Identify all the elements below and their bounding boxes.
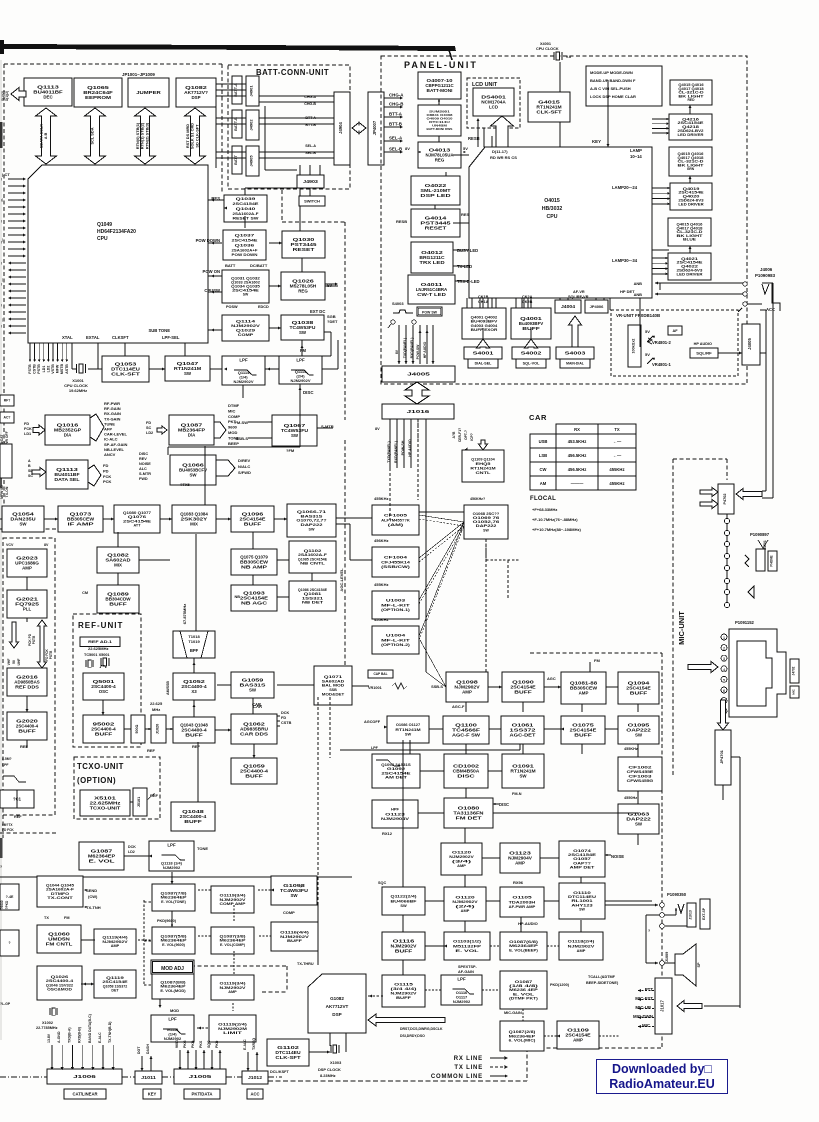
svg-text:MSTB: MSTB (60, 364, 64, 375)
svg-text:AGC: AGC (547, 676, 556, 681)
svg-text:SD CLK-SFT: SD CLK-SFT (194, 124, 199, 148)
svg-text:MIC-GAIN: MIC-GAIN (504, 1011, 522, 1015)
svg-text:RESB: RESB (468, 136, 480, 141)
svg-text:CLK-SFT: CLK-SFT (111, 372, 140, 377)
svg-text:9600: 9600 (228, 425, 238, 430)
svg-text:—: — (0, 198, 4, 202)
svg-text:PD: PD (103, 468, 109, 473)
svg-text:TCXO-UNIT: TCXO-UNIT (77, 762, 124, 771)
svg-text:J4903: J4903 (303, 179, 319, 184)
svg-text:NJM2902: NJM2902 (163, 865, 181, 870)
svg-text:BUFF: BUFF (245, 774, 263, 779)
svg-text:AF-PWR AMP: AF-PWR AMP (509, 904, 536, 909)
svg-text:455KHz: 455KHz (374, 617, 388, 622)
svg-text:SSB-S: SSB-S (236, 436, 249, 441)
svg-text:S/FWD: S/FWD (238, 470, 251, 475)
svg-text:J4006: J4006 (760, 267, 773, 272)
svg-text:(SSB/CW): (SSB/CW) (381, 564, 411, 569)
svg-text:J4005: J4005 (407, 372, 430, 377)
svg-text:RTN(2) STB(3): RTN(2) STB(3) (144, 122, 149, 149)
svg-text:453.5KHz: 453.5KHz (568, 439, 587, 444)
svg-text:SW: SW (184, 371, 192, 376)
svg-text:POW DOWN: POW DOWN (232, 252, 258, 257)
svg-text:VCV: VCV (6, 543, 14, 547)
svg-text:?L-GP: ?L-GP (0, 1002, 11, 1006)
svg-text:VR4801-1: VR4801-1 (652, 362, 672, 367)
svg-text:ANCV: ANCV (104, 452, 116, 457)
svg-text:E. VOL(9600): E. VOL(9600) (162, 943, 186, 947)
svg-text:AF: AF (672, 329, 678, 333)
svg-text:FM-N: FM-N (512, 792, 522, 796)
svg-text:REF-UNIT: REF-UNIT (78, 621, 123, 630)
svg-text:DCK: DCK (128, 845, 136, 849)
svg-text:+F+10.7MHz(88~-108MHz): +F+10.7MHz(88~-108MHz) (532, 527, 581, 532)
svg-text:NJM2902V: NJM2902V (391, 991, 418, 995)
svg-text:J1013: J1013 (689, 910, 693, 920)
svg-text:PKS: PKS (199, 1040, 203, 1048)
svg-text:FD: FD (281, 716, 286, 720)
svg-text:J4902: J4902 (249, 119, 254, 131)
svg-text:10~14: 10~14 (630, 154, 642, 159)
svg-text:455KHz: 455KHz (624, 747, 638, 751)
svg-text:NB AGC: NB AGC (241, 601, 268, 606)
svg-text:?: ? (300, 885, 302, 889)
svg-text:O1119(2/4): O1119(2/4) (218, 1022, 248, 1026)
svg-text:EXTAL: EXTAL (86, 335, 100, 340)
svg-text:REG: REG (298, 289, 308, 294)
svg-text:LPF: LPF (296, 358, 305, 363)
svg-text:50: 50 (12, 660, 16, 664)
svg-text:IF AMP: IF AMP (68, 522, 94, 527)
svg-text:RX96: RX96 (513, 880, 524, 885)
svg-text:RED: RED (688, 98, 696, 102)
svg-text:(: ( (1, 282, 2, 286)
svg-text:CLK-SFT: CLK-SFT (536, 110, 562, 115)
svg-text:X1003: X1003 (330, 1060, 342, 1065)
svg-text:KEY: KEY (592, 139, 601, 144)
svg-text:PKG: PKG (183, 1040, 187, 1048)
svg-text:SSB-S: SSB-S (431, 684, 443, 689)
svg-text:LOCK DSP HOME CLAR: LOCK DSP HOME CLAR (590, 94, 636, 99)
svg-text:BUFF: BUFF (244, 522, 262, 527)
svg-text:CFWS455G: CFWS455G (627, 778, 654, 783)
svg-text:REF: REF (147, 748, 156, 753)
svg-text:22.7785MHz: 22.7785MHz (36, 1026, 58, 1030)
svg-text:5V: 5V (645, 352, 650, 357)
svg-text:CSTB: CSTB (281, 721, 292, 725)
svg-text:LPF: LPF (167, 843, 176, 848)
svg-text:FM: FM (64, 916, 69, 920)
svg-text:RXD(B-B): RXD(B-B) (78, 1027, 82, 1043)
svg-text:VR1001: VR1001 (368, 686, 382, 690)
svg-text:(: ( (1, 303, 2, 307)
svg-text:JP4701: JP4701 (719, 749, 724, 764)
svg-text:J1009: J1009 (665, 952, 669, 963)
svg-text:J1005: J1005 (189, 1074, 212, 1079)
svg-text:CAR: CAR (253, 704, 262, 709)
svg-text:AM DET: AM DET (385, 776, 408, 780)
svg-text:E. VOL: E. VOL (89, 859, 116, 864)
svg-text:D(11-17): D(11-17) (492, 149, 508, 154)
svg-text:LD1: LD1 (42, 366, 46, 373)
svg-text:BAND DATA(B-C): BAND DATA(B-C) (88, 1014, 92, 1043)
svg-text:CSTB: CSTB (33, 364, 37, 374)
svg-text:M62364EP: M62364EP (509, 1034, 536, 1038)
svg-text:(OPTION-1): (OPTION-1) (381, 607, 411, 612)
svg-text:SW: SW (243, 293, 249, 297)
svg-text:(CW): (CW) (88, 894, 98, 899)
svg-text:FCK: FCK (24, 427, 32, 431)
svg-text:EDCD: EDCD (258, 305, 269, 309)
svg-text:AMP: AMP (22, 566, 32, 571)
svg-text:FM: FM (300, 348, 307, 353)
svg-text:Q1109 Q1104: Q1109 Q1104 (471, 458, 495, 462)
svg-text:AF-VR: AF-VR (573, 290, 585, 294)
svg-text:BUFF: BUFF (185, 733, 203, 738)
svg-text:BTT-A: BTT-A (389, 112, 403, 117)
svg-text:AMP: AMP (228, 990, 237, 994)
svg-text:1: 1 (723, 636, 725, 640)
svg-text:RX12: RX12 (382, 831, 393, 836)
svg-text:|-CT: |-CT (2, 172, 10, 177)
svg-text:P1090983: P1090983 (755, 273, 776, 278)
svg-text:5: 5 (723, 678, 725, 682)
svg-text:TX-LED: TX-LED (457, 264, 472, 269)
svg-text:LAMP: LAMP (630, 148, 642, 153)
svg-text:LED DRIVER: LED DRIVER (678, 202, 704, 206)
svg-text:500Ω: 500Ω (135, 724, 139, 733)
svg-text:PHONE: PHONE (770, 555, 774, 566)
svg-text:REF DDS: REF DDS (15, 685, 39, 690)
svg-text:9600: 9600 (175, 1040, 179, 1048)
svg-text:O1119(3/4): O1119(3/4) (220, 893, 247, 897)
svg-text:BUFF: BUFF (630, 691, 648, 696)
svg-text:AGC-F: AGC-F (452, 704, 465, 709)
svg-text:AMP: AMP (461, 908, 470, 913)
svg-text:DSP CLOCK: DSP CLOCK (318, 1067, 341, 1072)
svg-text:(: ( (1, 219, 2, 223)
svg-text:POW DOWN: POW DOWN (196, 238, 220, 243)
svg-text:LCD UNIT: LCD UNIT (472, 82, 498, 88)
svg-text:DSI,DRDY,DSO: DSI,DRDY,DSO (400, 1034, 425, 1038)
svg-text:P4702: P4702 (723, 494, 727, 505)
svg-text:BLUE: BLUE (683, 238, 697, 242)
svg-text:LED DRIVER: LED DRIVER (677, 272, 704, 276)
svg-text:+F+68.33MHz: +F+68.33MHz (532, 507, 557, 512)
svg-text:FM-SW: FM-SW (234, 420, 248, 425)
svg-text:PKD(1200): PKD(1200) (550, 983, 570, 987)
svg-text:X1002: X1002 (42, 1021, 53, 1025)
svg-text:BTT-B: BTT-B (389, 122, 402, 127)
svg-text:O1119(3/4): O1119(3/4) (220, 981, 247, 985)
svg-text:RESB: RESB (396, 219, 407, 224)
svg-text:OSC: OSC (99, 689, 109, 694)
svg-text:FCK: FCK (103, 474, 111, 479)
svg-text:NJM2902V: NJM2902V (233, 379, 253, 384)
svg-text:M62364EP: M62364EP (161, 896, 188, 900)
svg-text:CPU: CPU (547, 214, 558, 220)
svg-text:N/ALC: N/ALC (238, 464, 250, 469)
svg-text:AMP: AMP (573, 1038, 583, 1043)
svg-text:455KHz: 455KHz (374, 496, 388, 501)
svg-text:BATT-CONN-UNIT: BATT-CONN-UNIT (256, 68, 329, 77)
svg-text:HP AUDIO: HP AUDIO (423, 341, 427, 358)
svg-text:SP: SP (697, 962, 701, 968)
svg-text:NJM2902V: NJM2902V (290, 378, 310, 383)
svg-text:POW ON: POW ON (203, 269, 220, 274)
svg-text:AGC-F SW: AGC-F SW (452, 733, 481, 738)
svg-text:CLKSFT: CLKSFT (112, 335, 129, 340)
svg-text:SW: SW (290, 893, 298, 898)
svg-text:COMP: COMP (238, 332, 254, 337)
svg-text:RESET: RESET (293, 247, 315, 252)
svg-text:BATT: BATT (234, 154, 238, 165)
svg-text:AMP: AMP (577, 948, 586, 953)
svg-text:TX: TX (614, 427, 620, 432)
svg-text:RESET SW: RESET SW (233, 216, 259, 221)
svg-text:?TX5: ?TX5 (180, 482, 191, 487)
svg-text:BUFF: BUFF (396, 996, 412, 1000)
svg-text:POSW: POSW (226, 305, 238, 309)
svg-text:456.5KHz: 456.5KHz (568, 453, 587, 458)
svg-text:JP4007: JP4007 (372, 120, 377, 135)
svg-text:Q1087(2/8): Q1087(2/8) (509, 1030, 537, 1034)
svg-text:DISC: DISC (457, 774, 476, 779)
svg-text:BUFF: BUFF (514, 690, 532, 695)
svg-text:NOISE: NOISE (611, 854, 624, 859)
svg-text:J4701: J4701 (763, 540, 767, 550)
svg-text:X4001: X4001 (540, 42, 551, 46)
svg-text:KEY: KEY (148, 1091, 157, 1096)
svg-text:SW: SW (635, 822, 643, 827)
svg-text:100kΩx2: 100kΩx2 (632, 339, 636, 354)
svg-text:X3: X3 (191, 689, 197, 694)
svg-text:J4702: J4702 (792, 666, 796, 675)
svg-text:BUFF: BUFF (109, 602, 127, 607)
svg-text:TX-TNH: TX-TNH (86, 905, 101, 910)
svg-text:BUFF: BUFF (395, 949, 413, 954)
svg-text:(: ( (1, 261, 2, 265)
svg-text:BUFF: BUFF (18, 729, 36, 734)
svg-text:JUMPER: JUMPER (136, 90, 162, 95)
svg-text:ALC: ALC (139, 467, 147, 471)
svg-text:DEC: DEC (43, 95, 53, 100)
svg-text:SQC: SQC (378, 881, 386, 885)
svg-text:ASTB: ASTB (65, 364, 69, 374)
svg-text:RXD(PANEL): RXD(PANEL) (410, 338, 414, 359)
svg-text:TXREQ: TXREQ (252, 1038, 256, 1050)
svg-text:MIX: MIX (190, 522, 198, 527)
svg-text:CAT/LINEAR: CAT/LINEAR (72, 1091, 97, 1096)
svg-text:DSP LED: DSP LED (420, 193, 450, 198)
svg-text:MIX: MIX (114, 563, 122, 568)
svg-text:NJM2902V: NJM2902V (220, 986, 247, 990)
svg-text:AMP: AMP (515, 861, 525, 866)
svg-text:?: ? (0, 865, 2, 869)
svg-text:Downloaded by□: Downloaded by□ (612, 1062, 712, 1076)
svg-text:SW: SW (249, 688, 257, 693)
svg-text:J5101: J5101 (137, 797, 141, 808)
svg-text:?PKD: ?PKD (5, 900, 9, 909)
svg-text:SW: SW (299, 330, 307, 335)
svg-text:SW: SW (400, 903, 407, 908)
svg-text:PTT: PTT (645, 987, 654, 992)
svg-text:SQC: SQC (207, 1040, 211, 1048)
svg-text:SQL/RF: SQL/RF (696, 351, 712, 355)
svg-text:—: — (0, 238, 4, 242)
svg-text:456.5KHz: 456.5KHz (568, 467, 587, 472)
svg-text:RX LINE: RX LINE (454, 1056, 483, 1062)
svg-text:MOD: MOD (170, 1008, 179, 1013)
svg-text:ACC: ACC (766, 307, 775, 312)
svg-text:MIC-UP: MIC-UP (635, 1005, 651, 1010)
svg-text:SW: SW (189, 473, 197, 478)
svg-text:S4003: S4003 (392, 301, 404, 306)
svg-text:CHG-B: CHG-B (389, 102, 403, 107)
svg-text:BUFF: BUFF (95, 732, 113, 737)
svg-text:NB: NB (235, 595, 241, 599)
svg-text:AF-GAIN: AF-GAIN (458, 970, 474, 974)
svg-text:SW: SW (309, 527, 315, 531)
svg-text:(DTMF PKT): (DTMF PKT) (509, 997, 539, 1001)
svg-text:P1090897: P1090897 (750, 532, 770, 537)
svg-text:JP4006: JP4006 (590, 304, 605, 309)
svg-text:E. VOL(BEEP): E. VOL(BEEP) (509, 949, 539, 953)
svg-text:SUB TONE: SUB TONE (148, 328, 170, 333)
svg-text:Q1119(4/4): Q1119(4/4) (102, 935, 128, 939)
svg-text:(3/4 4/4): (3/4 4/4) (391, 987, 418, 991)
svg-text:67.875MHz: 67.875MHz (182, 604, 187, 624)
svg-text:BPF: BPF (190, 648, 199, 653)
svg-text:NOISE: NOISE (139, 462, 151, 466)
svg-text:AC?: AC? (4, 416, 11, 420)
svg-text:8V: 8V (44, 543, 49, 547)
svg-text:CLK-SFT: CLK-SFT (275, 1055, 301, 1060)
svg-text:←—: ←— (613, 439, 622, 444)
svg-text:D/REV: D/REV (238, 458, 251, 463)
svg-text:DASH: DASH (146, 1044, 150, 1054)
svg-text:DSP: DSP (332, 1012, 341, 1017)
svg-text:SW: SW (519, 774, 527, 779)
svg-text:PKD: PKD (215, 1040, 219, 1048)
svg-text:SW: SW (405, 731, 412, 736)
svg-text:DCL/KSFT: DCL/KSFT (270, 1070, 289, 1074)
svg-text:HB/3032: HB/3032 (542, 206, 563, 212)
svg-text:BUFF: BUFF (574, 733, 592, 738)
svg-text:CHG-A: CHG-A (389, 93, 404, 98)
svg-text:BATT-MONI: BATT-MONI (427, 88, 453, 93)
svg-text:TX-THRU: TX-THRU (297, 962, 314, 966)
svg-text:LD1: LD1 (24, 432, 31, 436)
svg-text:S-MTR: S-MTR (139, 472, 151, 476)
svg-text:OPT-?: OPT-? (464, 430, 468, 440)
svg-text:G1082: G1082 (330, 996, 344, 1001)
svg-text:MIC: MIC (642, 1023, 651, 1028)
svg-text:NJM2902M: NJM2902M (218, 1027, 247, 1031)
svg-text:NJM2902V: NJM2902V (280, 935, 309, 939)
svg-text:BATT: BATT (225, 263, 236, 268)
svg-text:GRN: GRN (687, 167, 695, 171)
svg-text:SC: SC (28, 474, 33, 478)
svg-text:RD WR RS CS: RD WR RS CS (490, 155, 517, 160)
svg-text:J1012: J1012 (248, 1075, 263, 1080)
svg-text:9M?TX: 9M?TX (2, 823, 13, 827)
svg-text:NB AMP: NB AMP (241, 565, 267, 570)
svg-text:HD64F2134FA20: HD64F2134FA20 (97, 229, 136, 235)
svg-text:4550Hz: 4550Hz (624, 796, 637, 800)
svg-text:LD2: LD2 (128, 850, 135, 854)
svg-text:J1016: J1016 (407, 409, 430, 414)
svg-text:S4001: S4001 (473, 350, 495, 355)
svg-text:VSTB: VSTB (51, 364, 55, 374)
svg-text:SEL-A: SEL-A (389, 136, 403, 141)
svg-text:PSTB: PSTB (49, 650, 53, 659)
svg-text:CAR: CAR (529, 413, 547, 422)
svg-text:BAND-UP BAND-DWN F: BAND-UP BAND-DWN F (590, 78, 636, 83)
svg-text:LSB: LSB (539, 453, 547, 458)
svg-text:JP1001~JP1009: JP1001~JP1009 (122, 72, 155, 77)
svg-text:O1115: O1115 (394, 983, 413, 987)
svg-text:J1011: J1011 (141, 1075, 157, 1080)
svg-text:AMP: AMP (111, 944, 120, 948)
svg-text:CPU: CPU (97, 236, 108, 242)
svg-text:XTAL: XTAL (62, 335, 73, 340)
svg-text:LPF: LPF (371, 746, 379, 750)
svg-text:?: ? (8, 941, 10, 945)
svg-text:COMP: COMP (283, 910, 295, 915)
svg-text:455KHz: 455KHz (609, 467, 624, 472)
svg-text:P1091152: P1091152 (735, 620, 755, 625)
svg-text:DTMF: DTMF (228, 403, 240, 408)
svg-text:+F-10.7MHz(76~-88MHz): +F-10.7MHz(76~-88MHz) (532, 517, 578, 522)
svg-text:MIC-FST: MIC-FST (635, 996, 653, 1001)
svg-text:J1020: J1020 (156, 724, 160, 735)
svg-text:FD: FD (24, 422, 29, 426)
svg-text:J4905: J4905 (249, 155, 254, 167)
svg-text:CPU CLOCK: CPU CLOCK (536, 47, 559, 51)
svg-text:T1019: T1019 (188, 639, 200, 644)
svg-text:8V: 8V (375, 427, 380, 431)
svg-text:BUSY-LED: BUSY-LED (457, 248, 478, 253)
svg-text:MIC: MIC (792, 688, 796, 694)
svg-text:DATA SEL: DATA SEL (54, 477, 80, 482)
svg-text:←—: ←— (613, 453, 622, 458)
svg-text:MODE-UP MODE-DWN: MODE-UP MODE-DWN (590, 70, 633, 75)
svg-text:LPF: LPF (168, 1017, 177, 1022)
svg-text:RES: RES (461, 212, 470, 217)
svg-text:?9600: ?9600 (0, 900, 4, 909)
svg-text:AM: AM (540, 481, 547, 486)
svg-text:?: ? (648, 929, 650, 933)
svg-text:FD FCK: FD FCK (2, 828, 14, 832)
svg-text:E. VOL(COMP): E. VOL(COMP) (220, 943, 246, 947)
svg-text:PSTB: PSTB (32, 635, 36, 644)
svg-text:O4015: O4015 (544, 198, 560, 204)
svg-text:LCD: LCD (489, 105, 498, 110)
svg-text:LED DRIVER: LED DRIVER (678, 133, 705, 137)
svg-text:O1116(4/4): O1116(4/4) (280, 930, 310, 934)
svg-text:SCL SDA: SCL SDA (90, 127, 95, 144)
svg-text:BEEP: BEEP (228, 441, 239, 446)
svg-text:AMP: AMP (462, 690, 472, 695)
svg-text:EXT DC: EXT DC (310, 309, 325, 314)
svg-text:SW: SW (579, 908, 585, 912)
svg-text:TX-TNH(B-D): TX-TNH(B-D) (108, 1022, 112, 1043)
svg-text:TRX LED: TRX LED (419, 260, 444, 265)
svg-text:NB CNTL: NB CNTL (300, 562, 326, 566)
svg-text:J1017: J1017 (660, 1000, 665, 1012)
svg-text:HP AUDIO: HP AUDIO (694, 342, 712, 346)
